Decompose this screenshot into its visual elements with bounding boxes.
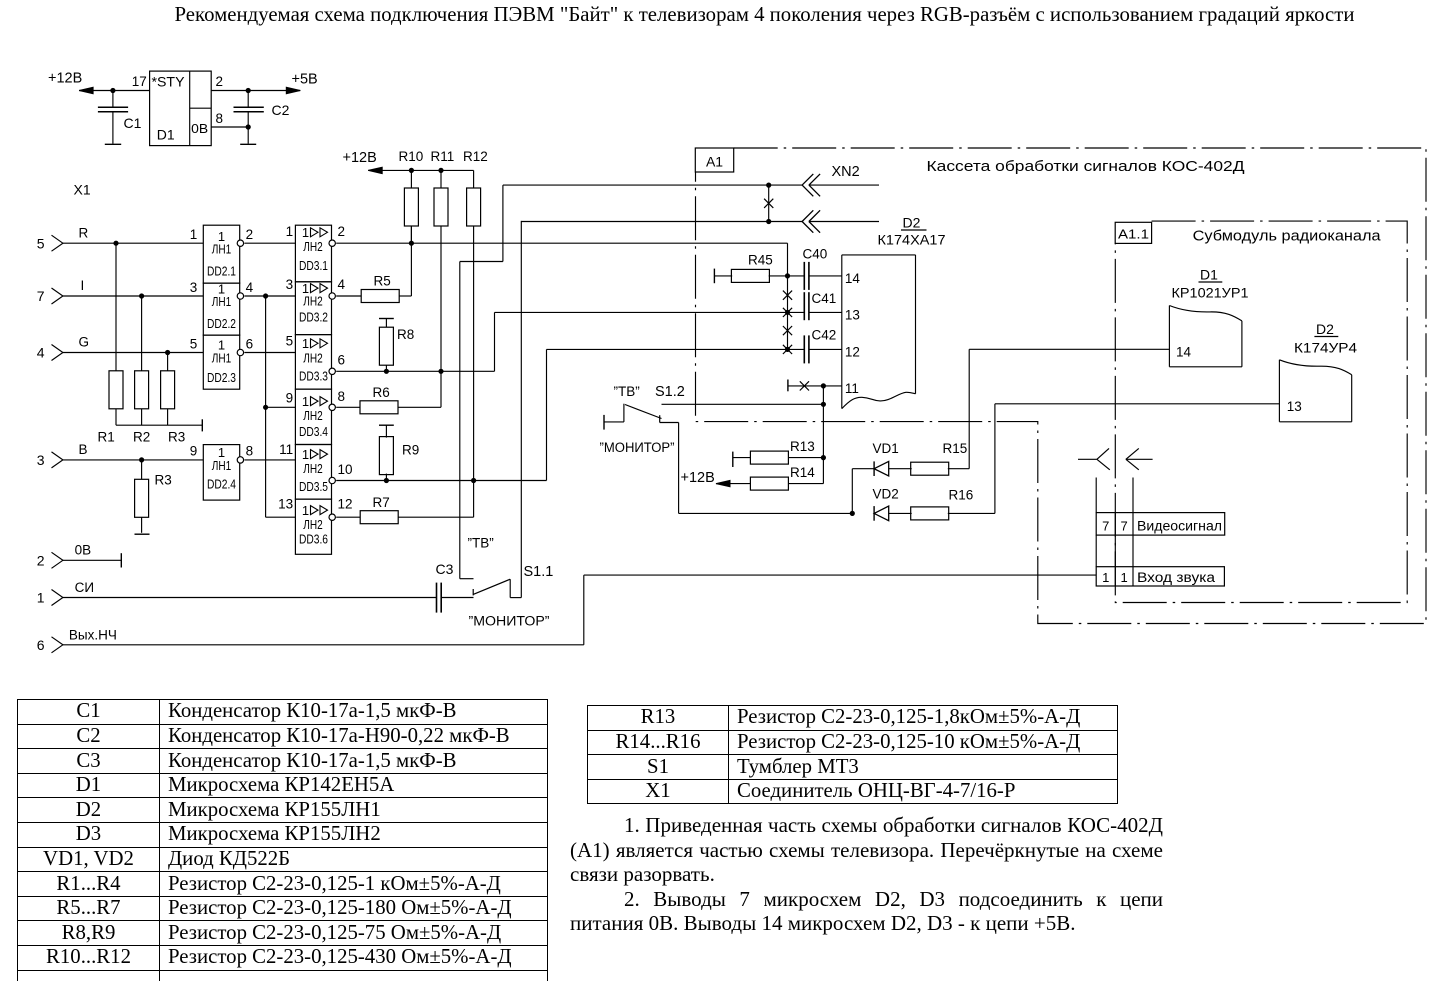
IC D2 K174XA17 box <box>842 255 916 409</box>
resistor R8 <box>379 319 414 372</box>
label TV (S1.2) <box>614 384 640 399</box>
switch S1.2 MONITOR contact <box>660 423 853 514</box>
wire Vyh.NCh line <box>63 575 1096 645</box>
connector X1 pin 4 chevron <box>37 345 63 361</box>
wire R7 riser <box>473 481 475 518</box>
wire to XN2 top <box>503 184 802 186</box>
wire G output row <box>336 370 494 372</box>
svg-text:12: 12 <box>845 344 860 359</box>
svg-text:ЛН2: ЛН2 <box>303 352 323 366</box>
svg-text:4: 4 <box>246 280 254 295</box>
node XN2 link bottom <box>767 219 771 223</box>
node +12V R11 <box>439 168 443 172</box>
svg-text:К174УР4: К174УР4 <box>1294 340 1357 356</box>
wire DD2.3 out to DD3.3 in <box>244 352 295 354</box>
IC D2 K174UR4 box <box>1279 360 1351 422</box>
wire I distribution vertical <box>265 296 267 517</box>
capacitor C40 <box>803 247 842 290</box>
pin 14 label (D1 sub) <box>1176 344 1192 359</box>
resistor R3 <box>161 353 186 445</box>
svg-text:”МОНИТОР”: ”МОНИТОР” <box>600 440 675 455</box>
svg-text:R15: R15 <box>943 441 968 456</box>
label S1.1 <box>524 564 554 580</box>
inverter DD2.2 <box>190 280 254 335</box>
svg-text:Вых.НЧ: Вых.НЧ <box>69 627 117 642</box>
wire I line X1.7 to DD2.2 <box>63 295 203 297</box>
node pin8-C2 junction <box>246 125 250 129</box>
svg-text:Вход звука: Вход звука <box>1137 570 1216 585</box>
svg-text:R2: R2 <box>133 430 150 445</box>
wire 0V stub <box>63 553 121 567</box>
resistor R15 <box>889 441 970 475</box>
resistor R9 <box>379 425 419 480</box>
buffer DD3.2 <box>286 277 346 335</box>
connector X1 pin 3 chevron <box>37 452 63 468</box>
node R8 to G row <box>384 369 388 373</box>
connector wall stubs lower <box>1096 535 1133 567</box>
wire pin11 terminal <box>788 380 842 392</box>
svg-text:1: 1 <box>190 227 198 242</box>
power rail +12V label (pullups) <box>343 150 377 166</box>
svg-text:”ТВ”: ”ТВ” <box>614 384 640 399</box>
svg-text:+12В: +12В <box>48 71 82 87</box>
net label I <box>81 278 85 293</box>
pin 2 label <box>216 74 224 89</box>
node +12V R10 <box>409 168 413 172</box>
svg-text:ЛН2: ЛН2 <box>303 409 323 423</box>
node tap pin12 with break <box>783 345 792 354</box>
svg-text:4: 4 <box>37 345 45 361</box>
buffer DD3.4 <box>286 389 345 445</box>
connector socket symbol <box>1078 448 1110 469</box>
resistor R1 <box>98 243 124 444</box>
net label Вых.НЧ <box>69 627 117 642</box>
wire R output row <box>336 242 787 244</box>
svg-text:D1: D1 <box>157 127 175 143</box>
svg-text:DD3.5: DD3.5 <box>299 480 328 494</box>
svg-text:0В: 0В <box>191 121 208 136</box>
node tap pin13 with break <box>783 308 792 317</box>
capacitor C42 <box>804 328 842 364</box>
buffer DD3.1 <box>286 224 345 282</box>
svg-text:+5В: +5В <box>292 72 318 88</box>
svg-text:D2: D2 <box>903 215 921 231</box>
power rail +5V label <box>292 72 318 88</box>
label K174XA17 <box>878 232 946 248</box>
svg-text:1: 1 <box>1102 570 1109 585</box>
resistor R7 <box>336 495 473 524</box>
wire B output row <box>336 480 546 482</box>
break mark on tap 2 <box>783 326 792 335</box>
ground under R4 <box>135 533 150 535</box>
wire G line X1.4 to DD2.3 <box>63 352 203 354</box>
svg-text:C40: C40 <box>803 247 828 262</box>
boundary A1.1 dash-dot frame <box>1115 221 1407 602</box>
wire S1.1 MONITOR contact <box>510 221 521 598</box>
pin 14 label (D2) <box>845 271 861 286</box>
parts table left <box>17 699 548 981</box>
svg-text:R45: R45 <box>748 253 773 268</box>
switch S1.2 arm <box>625 405 662 423</box>
boundary A1 frame label box <box>695 148 733 172</box>
wire VD1 branch <box>852 469 874 514</box>
svg-text:DD3.3: DD3.3 <box>299 369 328 383</box>
node B-R4 junction <box>140 458 144 462</box>
svg-text:DD3.6: DD3.6 <box>299 533 328 547</box>
svg-text:S1.1: S1.1 <box>524 564 554 580</box>
svg-text:1: 1 <box>302 336 309 351</box>
svg-text:7: 7 <box>1102 519 1109 534</box>
label D1 (submodule) <box>1199 267 1223 283</box>
wire G row to C41 riser <box>495 312 805 371</box>
wire I to DD3.4 in <box>266 406 296 408</box>
svg-text:3: 3 <box>37 452 45 468</box>
wire B line X1.3 to DD2.4 <box>63 459 203 461</box>
node R9 to B row <box>384 478 388 482</box>
inverter DD2.3 <box>190 335 253 389</box>
inverter DD2.1 <box>190 225 253 283</box>
boundary A1.1 label box <box>1115 222 1151 243</box>
pin 13 label (D2) <box>845 308 860 323</box>
svg-text:1: 1 <box>37 590 45 606</box>
svg-text:DD2.2: DD2.2 <box>207 317 236 331</box>
resistor R14 <box>716 477 823 490</box>
node R45-C40 junction <box>785 274 789 278</box>
wire S1.2 common to pin11 node <box>662 403 824 405</box>
capacitor C2 <box>234 91 290 144</box>
resistor R10 <box>399 149 424 243</box>
resistor R12 <box>463 149 488 481</box>
svg-text:ЛН2: ЛН2 <box>303 518 323 532</box>
node S1.2 wiper junction <box>821 402 825 406</box>
wire S1.1 TV contact <box>460 262 474 579</box>
svg-text:9: 9 <box>286 391 294 406</box>
svg-text:ЛН2: ЛН2 <box>303 295 323 309</box>
wire +12V to D1 pin17 <box>79 87 150 93</box>
svg-text:7: 7 <box>1120 519 1127 534</box>
wire I to DD3.6 in <box>266 516 296 518</box>
wire D1 pin2 to +5V <box>211 87 300 93</box>
svg-text:12: 12 <box>338 497 353 512</box>
label D2 (submodule) <box>1314 321 1338 337</box>
svg-text:СИ: СИ <box>75 580 94 595</box>
svg-text:6: 6 <box>246 336 254 351</box>
svg-text:R12: R12 <box>463 149 488 164</box>
svg-text:B: B <box>79 442 88 457</box>
svg-text:DD3.2: DD3.2 <box>299 310 328 324</box>
svg-text:XN2: XN2 <box>832 164 860 180</box>
connector X1 pin 7 chevron <box>37 288 63 304</box>
pin 12 label (D2) <box>845 344 860 359</box>
wire R5 riser <box>410 226 412 296</box>
svg-text:2: 2 <box>37 553 45 569</box>
svg-text:5: 5 <box>190 336 198 351</box>
svg-text:R13: R13 <box>790 439 815 454</box>
label S1.2 <box>655 384 685 400</box>
svg-text:DD2.3: DD2.3 <box>207 371 236 385</box>
node G-R3 junction <box>166 350 170 354</box>
label TV (S1.1) <box>468 536 494 551</box>
node VD2 row junction <box>850 511 854 515</box>
power rail +12V label <box>48 71 82 87</box>
svg-text:13: 13 <box>845 308 860 323</box>
svg-text:3: 3 <box>190 280 198 295</box>
svg-text:Субмодуль радиоканала: Субмодуль радиоканала <box>1193 229 1382 245</box>
label K174UR4 <box>1294 340 1357 356</box>
svg-text:ЛН1: ЛН1 <box>212 351 232 365</box>
voltage regulator D1 box <box>150 71 212 146</box>
svg-text:R7: R7 <box>373 495 390 510</box>
svg-text:3: 3 <box>286 277 294 292</box>
svg-text:2: 2 <box>216 74 224 89</box>
pin 17 label <box>132 74 147 89</box>
svg-text:VD2: VD2 <box>873 487 899 502</box>
connector X1 pin 6 chevron <box>37 637 63 653</box>
svg-text:R16: R16 <box>949 488 974 503</box>
pin 8 label <box>216 111 224 126</box>
svg-text:I: I <box>81 278 85 293</box>
svg-text:1: 1 <box>302 225 309 240</box>
svg-text:К174ХА17: К174ХА17 <box>878 232 946 248</box>
resistor R2 <box>133 296 150 445</box>
svg-text:C1: C1 <box>124 115 142 131</box>
svg-text:R8: R8 <box>397 327 414 342</box>
resistor R11 <box>431 149 455 371</box>
svg-text:5: 5 <box>37 235 45 251</box>
wire R row into R45 node <box>787 243 789 349</box>
svg-text:+12В: +12В <box>681 470 715 486</box>
buffer DD3.5 <box>279 442 352 499</box>
svg-text:C3: C3 <box>436 561 454 577</box>
svg-text:”МОНИТОР”: ”МОНИТОР” <box>469 614 550 629</box>
svg-text:6: 6 <box>37 637 45 653</box>
svg-text:C42: C42 <box>812 328 837 343</box>
svg-text:8: 8 <box>216 111 224 126</box>
svg-text:ЛН1: ЛН1 <box>212 242 232 256</box>
svg-text:DD2.1: DD2.1 <box>207 265 236 279</box>
svg-text:17: 17 <box>132 74 147 89</box>
wire SI line to C3 <box>63 597 437 599</box>
svg-text:7: 7 <box>37 288 45 304</box>
svg-text:0В: 0В <box>75 543 92 558</box>
svg-text:4: 4 <box>338 277 346 292</box>
IC D1 KR1021UR1 box <box>1169 306 1242 367</box>
connector X1 label <box>74 182 91 198</box>
svg-text:14: 14 <box>845 271 861 286</box>
svg-text:ЛН2: ЛН2 <box>303 462 323 476</box>
svg-text:1: 1 <box>286 224 294 239</box>
node pin11 junction <box>821 384 825 388</box>
svg-text:13: 13 <box>278 497 293 512</box>
net label R <box>79 225 89 240</box>
svg-text:ЛН1: ЛН1 <box>212 459 232 473</box>
node I to DD3.4 junction <box>264 405 268 409</box>
svg-text:X1: X1 <box>74 182 91 198</box>
label Submodul radiokanala <box>1193 229 1382 245</box>
net label СИ <box>75 580 94 595</box>
svg-text:8: 8 <box>338 389 346 404</box>
svg-text:R11: R11 <box>431 149 455 164</box>
svg-text:R5: R5 <box>374 274 391 289</box>
svg-text:8: 8 <box>246 444 254 459</box>
label Kasseta <box>927 159 1245 175</box>
resistor R5 <box>336 274 411 303</box>
diode VD2 <box>873 487 899 521</box>
svg-text:1: 1 <box>302 394 309 409</box>
svg-text:10: 10 <box>338 462 353 477</box>
svg-text:R: R <box>79 225 89 240</box>
connector table Vhod zvuka <box>1096 567 1224 586</box>
switch S1.2 TV contact <box>604 404 624 430</box>
wire to XN2 bottom <box>521 221 802 223</box>
wire DD2.4 out to DD3.5 in <box>244 459 295 461</box>
net label 0В <box>75 543 92 558</box>
svg-text:5: 5 <box>286 334 294 349</box>
connector X1 pin 5 chevron <box>37 235 63 251</box>
label XN2 <box>832 164 860 180</box>
connector XN2 bottom arrows <box>802 210 879 232</box>
resistor R16 <box>889 488 995 520</box>
node XN2 link top <box>767 183 771 187</box>
svg-text:R14: R14 <box>790 465 815 480</box>
wire +12V pullup rail <box>368 167 473 173</box>
connector wall stubs upper <box>1096 478 1133 513</box>
node B row R12/R7 junction <box>472 478 476 482</box>
label MONITOR (S1.2) <box>600 440 675 455</box>
svg-text:C41: C41 <box>812 291 837 306</box>
svg-text:11: 11 <box>845 381 859 396</box>
wire DD2.1 out to DD3.1 in <box>244 242 295 244</box>
node I-R2 junction <box>140 294 144 298</box>
svg-text:R3: R3 <box>155 473 172 488</box>
svg-text:Видеосигнал: Видеосигнал <box>1137 519 1222 534</box>
svg-text:DD3.1: DD3.1 <box>299 259 328 273</box>
wire R15 to D1sub pin14 <box>969 349 1169 468</box>
label R14 <box>790 465 815 480</box>
node G row R11/R6 junction <box>439 369 443 373</box>
node I distribution tap <box>264 294 268 298</box>
svg-text:6: 6 <box>338 353 346 368</box>
wire S1.1 TV to XN2 top <box>460 185 503 261</box>
svg-text:*STY: *STY <box>152 75 185 90</box>
net label B <box>79 442 88 457</box>
capacitor C3 <box>436 561 474 613</box>
node R13 junction <box>821 456 825 460</box>
inverter DD2.4 <box>190 444 253 500</box>
break mark XN2 link <box>764 199 773 208</box>
connector table Videosignal <box>1096 513 1225 536</box>
net label G <box>79 335 90 350</box>
wire B row to C42 riser <box>547 349 805 480</box>
svg-text:C2: C2 <box>272 102 290 118</box>
parts table right <box>587 705 1118 804</box>
svg-text:VD1: VD1 <box>873 441 899 456</box>
wire D1 pin8 to C2 <box>211 126 248 128</box>
svg-text:11: 11 <box>279 442 293 457</box>
buffer DD3.6 <box>278 497 352 555</box>
label KR1021UR1 <box>1172 285 1249 301</box>
wire R6 riser <box>440 371 442 407</box>
svg-text:R1: R1 <box>98 430 115 445</box>
resistor R6 <box>336 385 441 414</box>
break mark pin11 <box>800 381 809 390</box>
svg-text:R6: R6 <box>373 385 390 400</box>
svg-text:13: 13 <box>1287 399 1302 414</box>
resistor R45 <box>714 253 804 284</box>
svg-text:”ТВ”: ”ТВ” <box>468 536 494 551</box>
svg-text:DD2.4: DD2.4 <box>207 478 236 492</box>
power rail +12V label (R14) <box>681 470 715 486</box>
connector XN2 top arrows <box>802 174 879 196</box>
break mark on tap 1 <box>783 291 792 300</box>
svg-text:ЛН1: ЛН1 <box>212 295 232 309</box>
svg-text:R3: R3 <box>168 430 185 445</box>
connector plug arrow <box>1126 448 1153 469</box>
node C1 junction <box>111 88 115 92</box>
wire DD2.2 out to DD3.2 in <box>244 295 295 297</box>
boundary A1 dash-dot frame <box>696 148 1427 624</box>
wire R1-R3 common rail <box>116 419 202 431</box>
svg-text:2: 2 <box>246 227 254 242</box>
capacitor C1 <box>98 91 142 144</box>
svg-text:14: 14 <box>1176 344 1192 359</box>
svg-text:D2: D2 <box>1316 321 1334 337</box>
wire R line X1.5 to DD2.1 <box>63 242 203 244</box>
connector X1 pin 2 chevron <box>37 552 63 568</box>
node R-R1 junction <box>114 241 118 245</box>
svg-text:D1: D1 <box>1200 267 1218 283</box>
buffer DD3.3 <box>286 334 345 390</box>
wire pin11 node vertical <box>822 386 824 484</box>
svg-text:G: G <box>79 335 90 350</box>
switch S1.1 <box>473 579 510 595</box>
svg-text:+12В: +12В <box>343 150 377 166</box>
svg-text:Кассета обработки сигналов КОС: Кассета обработки сигналов КОС-402Д <box>927 159 1245 175</box>
wire R16 to D2sub pin13 <box>995 404 1280 514</box>
resistor R4 (labeled R3) <box>135 460 172 533</box>
label MONITOR (S1.1) <box>469 614 550 629</box>
pin 11 label (D2) <box>845 381 859 396</box>
svg-text:S1.2: S1.2 <box>655 384 685 400</box>
svg-text:DD3.4: DD3.4 <box>299 425 328 439</box>
wire XN2 link vertical <box>768 185 770 221</box>
svg-text:9: 9 <box>190 444 198 459</box>
label D2 (KOS) <box>901 215 927 231</box>
svg-text:2: 2 <box>338 224 346 239</box>
svg-text:R10: R10 <box>399 149 424 164</box>
svg-text:A1.1: A1.1 <box>1118 227 1149 242</box>
diode VD1 <box>873 441 899 476</box>
svg-text:A1: A1 <box>706 154 723 170</box>
node R row R10/R5 junction <box>409 241 413 245</box>
svg-text:R9: R9 <box>402 443 419 458</box>
svg-text:1: 1 <box>302 503 309 518</box>
ground under C1 <box>105 143 121 145</box>
notes <box>570 813 1163 936</box>
svg-text:КР1021УР1: КР1021УР1 <box>1172 285 1249 301</box>
capacitor C41 <box>804 291 842 320</box>
pin 13 label (D2 sub) <box>1287 399 1302 414</box>
svg-text:ЛН2: ЛН2 <box>303 240 323 254</box>
connector X1 pin 1 chevron <box>37 590 63 606</box>
ground under C2 <box>240 143 256 145</box>
svg-text:1: 1 <box>1120 570 1127 585</box>
svg-text:1: 1 <box>302 447 309 462</box>
node C2 top junction <box>246 88 250 92</box>
resistor R13 <box>733 439 824 467</box>
